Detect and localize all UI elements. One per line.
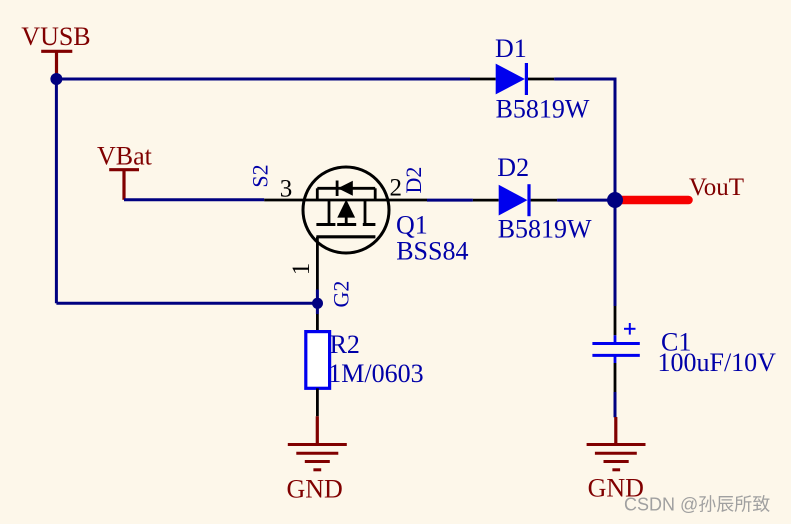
wire output node down to C1 xyxy=(614,200,617,306)
svg-text:1: 1 xyxy=(288,263,315,276)
junction node VUSB xyxy=(50,73,62,85)
svg-text:100uF/10V: 100uF/10V xyxy=(658,348,777,377)
svg-text:VUSB: VUSB xyxy=(21,22,90,51)
channel segment right xyxy=(363,223,376,226)
capacitor C1 (polarized) xyxy=(592,306,639,392)
junction output node xyxy=(607,192,623,208)
wire left bottom to gate node xyxy=(56,302,314,305)
power port VBat xyxy=(97,142,153,200)
resistor R2 xyxy=(306,314,330,416)
channel segment left xyxy=(316,223,335,226)
left channel connector xyxy=(328,200,331,225)
svg-text:Q1: Q1 xyxy=(396,211,428,240)
right channel connector xyxy=(364,200,367,225)
svg-text:VBat: VBat xyxy=(97,142,153,171)
wire VUSB node down left side xyxy=(55,79,58,303)
top line xyxy=(317,187,375,190)
body diode triangle xyxy=(338,181,353,196)
svg-text:CSDN @孙辰所致: CSDN @孙辰所致 xyxy=(624,495,770,515)
body circle xyxy=(303,167,389,253)
svg-text:D1: D1 xyxy=(495,34,527,63)
channel segment middle xyxy=(337,223,356,226)
svg-text:R2: R2 xyxy=(330,330,360,359)
svg-text:VouT: VouT xyxy=(689,174,744,201)
transistor Q1 (P-MOSFET BSS84) xyxy=(264,167,427,290)
bulk arrow xyxy=(337,200,355,218)
left post xyxy=(316,188,319,200)
body diode cathode bar xyxy=(336,181,339,197)
power port VUSB xyxy=(21,22,90,79)
svg-text:3: 3 xyxy=(280,176,293,203)
wire VouT (red heavy) xyxy=(618,196,689,205)
svg-text:G2: G2 xyxy=(328,281,353,308)
pin 3 lead xyxy=(264,199,304,202)
plus sign xyxy=(624,328,636,330)
svg-text:S2: S2 xyxy=(248,164,273,187)
wire VBat to Q1 source pin xyxy=(124,198,264,201)
pin 2 lead xyxy=(388,199,427,202)
wire D2 cathode to output node xyxy=(557,199,612,202)
svg-text:D2: D2 xyxy=(497,153,529,182)
gate bar xyxy=(316,235,375,238)
wire D1 cathode to corner and down to output node xyxy=(554,79,615,200)
power port GND left xyxy=(287,416,347,503)
svg-text:BSS84: BSS84 xyxy=(396,237,468,266)
svg-text:1M/0603: 1M/0603 xyxy=(328,359,423,388)
wire C1 to GND xyxy=(614,392,617,417)
gate pin lead xyxy=(316,237,319,290)
wire VUSB to D1 anode xyxy=(56,78,470,81)
diode D1 xyxy=(470,63,554,95)
svg-text:GND: GND xyxy=(287,475,343,504)
svg-text:D2: D2 xyxy=(401,167,426,194)
power port GND right xyxy=(587,417,646,503)
source-drain line xyxy=(304,199,388,202)
diode D2 xyxy=(473,184,557,216)
bottom plate xyxy=(592,354,639,357)
svg-text:B5819W: B5819W xyxy=(496,95,590,124)
junction gate node xyxy=(312,298,323,309)
wire gate pin to gate node xyxy=(316,290,319,315)
wire Q1 drain to D2 anode xyxy=(427,199,473,202)
right post xyxy=(374,188,377,200)
top plate xyxy=(592,342,639,345)
svg-text:B5819W: B5819W xyxy=(498,215,592,244)
